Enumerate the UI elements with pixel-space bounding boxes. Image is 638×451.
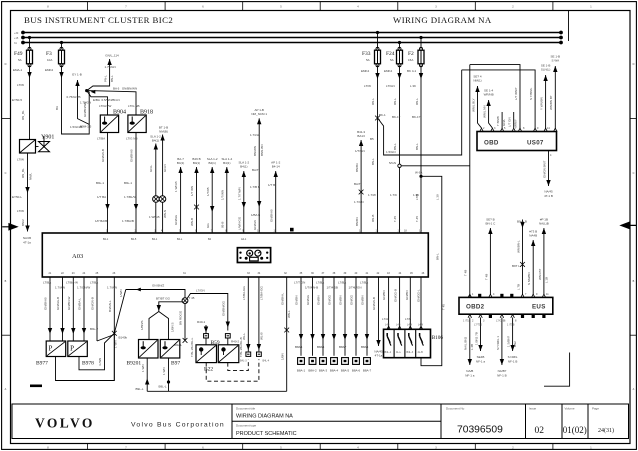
svg-text:L7/BA: L7/BA — [360, 281, 368, 285]
svg-text:Y901: Y901 — [41, 135, 54, 141]
svg-text:B4(1): B4(1) — [193, 161, 200, 165]
svg-text:4T-1a: 4T-1a — [375, 354, 383, 358]
wire OBD pin3 net arrow — [483, 89, 494, 129]
svg-text:T BN/B: T BN/B — [496, 116, 500, 126]
connector block B59 b — [211, 334, 231, 346]
svg-text:1.7/GN/W: 1.7/GN/W — [77, 286, 90, 290]
wire up arrow into OBD2 pin4 — [484, 218, 496, 296]
svg-text:1 /T5B: 1 /T5B — [507, 324, 515, 327]
svg-text:L7/BA: L7/BA — [316, 281, 324, 285]
svg-text:1 WN-B: 1 WN-B — [149, 215, 160, 219]
svg-text:1.5/GN: 1.5/GN — [386, 150, 396, 154]
svg-text:5/GN: 5/GN — [389, 161, 396, 165]
svg-text:1/T4L/GN: 1/T4L/GN — [349, 286, 362, 290]
svg-text:LT/BA: LT/BA — [43, 281, 51, 285]
wire A03 pin34 to block — [257, 277, 264, 351]
wire into sender box b — [228, 338, 240, 345]
svg-text:B8A-5: B8A-5 — [341, 369, 350, 373]
switch contacts inside B106 — [385, 324, 424, 354]
svg-text:GN/BN-W: GN/BN-W — [67, 297, 71, 311]
svg-text:1/T/WN-B: 1/T/WN-B — [305, 286, 318, 290]
splice circle junction — [182, 296, 195, 304]
wire A03 pin22 to B977 — [55, 277, 65, 341]
svg-text:GN/BN: GN/BN — [382, 290, 386, 300]
svg-text:4L-B: 4L-B — [418, 351, 424, 354]
wire F24 to A03 — [384, 65, 402, 233]
svg-text:EY 1-B: EY 1-B — [72, 73, 81, 77]
svg-text:1/T/GN: 1/T/GN — [355, 149, 365, 153]
temp sender B9201 — [127, 340, 159, 367]
off-page arrow SE B left — [67, 73, 82, 100]
sender ground return wire from A03 pin32 — [280, 277, 291, 391]
svg-text:B9L-1: B9L-1 — [96, 181, 104, 185]
svg-text:LT/GN: LT/GN — [386, 84, 395, 88]
svg-text:L7/BA: L7/BA — [338, 281, 346, 285]
svg-text:D: D — [633, 63, 635, 66]
svg-text:GN BN/Z: GN BN/Z — [152, 284, 164, 288]
svg-text:BK 4-1: BK 4-1 — [407, 69, 417, 73]
svg-text:B2-5: B2-5 — [131, 238, 137, 241]
wire OBD pin7 stub — [508, 112, 518, 128]
svg-text:WL-B: WL-B — [259, 333, 263, 341]
svg-text:1 WN: 1 WN — [141, 365, 145, 373]
svg-text:BNN-BN: BNN-BN — [260, 144, 264, 156]
return wire labels — [98, 358, 102, 366]
frame zone ticks left and right — [2, 118, 637, 335]
connector block B59 a — [204, 334, 209, 338]
svg-text:01(02): 01(02) — [563, 425, 587, 435]
svg-text:BK-1?: BK-1? — [412, 115, 421, 119]
svg-text:SE4B: SE4B — [477, 355, 485, 359]
svg-text:NA/45: NA/45 — [23, 236, 32, 240]
fuse F2 — [408, 36, 424, 67]
svg-text:1.7/WN: 1.7/WN — [107, 286, 117, 290]
wire OBD pin5 stub — [496, 112, 506, 128]
svg-text:B4L-1: B4L-1 — [385, 351, 392, 354]
wire up arrow into OBD2 pin11 — [538, 218, 549, 296]
svg-text:1 /T5A: 1 /T5A — [463, 320, 471, 323]
diagnostic connector OBD2 EUS — [459, 297, 553, 314]
svg-text:GN-N: GN-N — [163, 164, 167, 172]
title block table — [12, 404, 629, 439]
svg-text:GN/BN-L: GN/BN-L — [280, 293, 284, 306]
svg-text:BA/T: BA/T — [354, 182, 361, 186]
frame zone ticks bottom — [88, 444, 553, 450]
svg-text:BN-L: BN-L — [415, 143, 419, 150]
svg-text:NF-1 B: NF-1 B — [497, 374, 507, 378]
svg-text:WIRING DIAGRAM NA: WIRING DIAGRAM NA — [236, 414, 293, 420]
svg-text:LT/B: LT/B — [415, 194, 419, 200]
svg-text:S NM/L: S NM/L — [508, 355, 518, 359]
svg-text:Document No: Document No — [446, 407, 465, 411]
svg-text:EMA-1: EMA-1 — [13, 68, 23, 72]
svg-text:BN-L: BN-L — [110, 75, 114, 82]
wire A03 pin21 to B977 — [43, 277, 52, 341]
svg-text:GN/BN: GN/BN — [405, 290, 409, 300]
svg-text:4 /WN: 4 /WN — [98, 358, 102, 366]
svg-text:GN/GG: GN/GG — [350, 294, 354, 305]
svg-text:BK-1: BK-1 — [379, 113, 386, 117]
svg-text:1/WN: 1/WN — [119, 290, 123, 298]
svg-text:B8A-6: B8A-6 — [352, 369, 361, 373]
svg-text:BN2: BN2 — [513, 341, 517, 347]
svg-text:WN/BN-L: WN/BN-L — [516, 240, 520, 253]
svg-text:BA13: BA13 — [357, 134, 365, 138]
svg-text:B4/GN-L: B4/GN-L — [108, 300, 112, 312]
svg-text:B977: B977 — [36, 361, 48, 367]
rail wire F24 splice to OBD2 — [389, 161, 470, 200]
svg-text:T.BL.WL/WL-L: T.BL.WL/WL-L — [190, 337, 194, 357]
svg-text:T 4B: T 4B — [464, 270, 468, 276]
rail wire F33 splice to OBD pin8 — [378, 70, 462, 155]
svg-text:LT/BA-W: LT/BA-W — [66, 281, 78, 285]
wire B904 to A03 pin — [95, 133, 110, 233]
svg-text:B9M-1.5: B9M-1.5 — [80, 125, 92, 129]
svg-text:NM/L: NM/L — [29, 173, 33, 180]
sensor B904 — [100, 110, 126, 133]
svg-text:NA/B?: NA/B? — [498, 369, 507, 373]
wire A03 to B106 pin3 — [405, 277, 411, 329]
svg-text:Page: Page — [592, 407, 599, 411]
svg-text:1/T B: 1/T B — [268, 183, 275, 187]
svg-text:GN/GG-B: GN/GG-B — [394, 289, 398, 302]
svg-text:RN_BL: RN_BL — [21, 110, 25, 120]
svg-text:WN-B: WN-B — [190, 218, 194, 226]
svg-text:WN/L NN: WN/L NN — [483, 105, 487, 118]
svg-text:B9L-1: B9L-1 — [124, 181, 132, 185]
svg-text:1/BN S: 1/BN S — [171, 322, 175, 332]
ground wire OBD2 pin3 — [474, 318, 485, 364]
sensor B918 — [128, 110, 153, 133]
svg-text:BA/T: BA/T — [252, 168, 259, 172]
route wire OBD pin9 over and down — [462, 70, 535, 130]
svg-text:GN/GG: GN/GG — [328, 294, 332, 305]
svg-text:L/T GN: L/T GN — [508, 117, 512, 127]
svg-text:L 7B: L 7B — [516, 284, 520, 290]
svg-text:B4(1): B4(1) — [209, 161, 216, 165]
svg-text:NA4B: NA4B — [529, 234, 537, 238]
svg-text:GN/BA-L: GN/BA-L — [78, 298, 82, 310]
dashed link sensor a — [206, 359, 259, 381]
svg-text:BA 6 GN/BN/WN: BA 6 GN/BN/WN — [113, 87, 137, 91]
svg-text:1 S/BN?: 1 S/BN? — [507, 335, 511, 347]
svg-text:B4(1): B4(1) — [177, 161, 184, 165]
svg-text:L4W: L4W — [418, 324, 424, 327]
svg-text:GN/GG: GN/GG — [306, 294, 310, 305]
svg-text:L/T WN/T: L/T WN/T — [514, 87, 518, 100]
svg-text:LT/W: LT/W — [364, 84, 371, 88]
svg-text:L7/B: L7/B — [405, 317, 411, 321]
svg-text:GN/GN BN/T: GN/GN BN/T — [542, 160, 546, 178]
twisted pair symbol — [153, 196, 166, 203]
svg-text:BT/BT GG: BT/BT GG — [156, 297, 171, 301]
svg-text:F2: F2 — [408, 51, 414, 57]
svg-text:GN/GN-B: GN/GN-B — [91, 297, 95, 310]
svg-text:1.7/BA/B: 1.7/BA/B — [122, 219, 134, 223]
svg-text:1/T/WN: 1/T/WN — [221, 190, 225, 200]
fuse F49 — [14, 36, 33, 67]
svg-text:1/P BA/B: 1/P BA/B — [95, 219, 107, 223]
svg-text:B4(1): B4(1) — [152, 139, 159, 143]
svg-text:GN/BN-B: GN/BN-B — [44, 297, 48, 310]
frame centering arrow right — [621, 222, 636, 228]
svg-text:A4-1: A4-1 — [241, 238, 247, 241]
switch pack B106 — [384, 329, 444, 357]
svg-text:B4L-3: B4L-3 — [407, 351, 414, 354]
svg-text:PRODUCT SCHEMATIC: PRODUCT SCHEMATIC — [236, 431, 297, 437]
connector block b — [257, 352, 270, 363]
svg-text:Y WN/BN: Y WN/BN — [539, 97, 543, 110]
OBD top pin numbers — [483, 127, 552, 157]
svg-text:WN/BN BT: WN/BN BT — [549, 95, 553, 110]
svg-text:B4L-4: B4L-4 — [263, 360, 270, 363]
pressure sender B977 — [36, 341, 66, 367]
svg-text:1.7/W: 1.7/W — [368, 193, 376, 197]
svg-text:OBD: OBD — [484, 140, 499, 147]
svg-text:WL-L: WL-L — [242, 333, 246, 340]
svg-text:WN-L: WN-L — [287, 310, 291, 318]
svg-text:15A: 15A — [408, 58, 413, 62]
svg-text:GN/GN-B: GN/GN-B — [372, 297, 376, 310]
svg-text:T-45: T-45 — [393, 216, 397, 222]
svg-text:B8A-2: B8A-2 — [308, 369, 317, 373]
ground wire OBD2 pin6 — [496, 318, 507, 378]
wire B977 return — [56, 333, 115, 380]
svg-text:B4-14: B4-14 — [272, 165, 280, 169]
lamp output wires with terminals — [294, 277, 371, 373]
wire A03 pin25 stub — [90, 277, 114, 341]
svg-text:RN-L: RN-L — [371, 98, 375, 105]
svg-text:B9L-2: B9L-2 — [90, 327, 98, 331]
svg-text:LT/W: LT/W — [17, 209, 24, 213]
svg-text:Volume: Volume — [565, 407, 575, 411]
svg-text:L 4B: L 4B — [470, 344, 474, 350]
svg-text:B8A-7: B8A-7 — [363, 369, 372, 373]
power bus 31 — [14, 41, 563, 45]
svg-text:WN/L BLY: WN/L BLY — [471, 98, 475, 112]
svg-text:P: P — [70, 345, 74, 353]
svg-text:E/BA 0.5/WN/BN-N: E/BA 0.5/WN/BN-N — [93, 98, 120, 102]
fuse F3 — [46, 41, 65, 67]
frame zone ticks top — [88, 2, 553, 11]
svg-text:GN-L: GN-L — [149, 165, 153, 172]
off-page arrow SE B — [104, 54, 120, 83]
A03 top pin labels row — [103, 238, 247, 241]
svg-text:B140b: B140b — [119, 336, 128, 340]
svg-text:S NM/BN: S NM/BN — [527, 272, 531, 285]
svg-text:SLN(L): SLN(L) — [541, 68, 551, 72]
svg-text:Volvo Bus Corporation: Volvo Bus Corporation — [131, 422, 225, 429]
svg-text:NM(1): NM(1) — [473, 79, 481, 83]
svg-text:WN4 BT: WN4 BT — [538, 268, 542, 280]
A03 top pin numbers — [106, 229, 422, 232]
svg-text:GN/BN/WN: GN/BN/WN — [83, 102, 87, 117]
temp sender B97 — [160, 340, 180, 367]
svg-text:Issue: Issue — [529, 407, 537, 411]
wire junction to temp senders — [140, 297, 182, 340]
OBD2 pin number specks — [472, 293, 549, 323]
wire A03 pin33 to block — [242, 277, 251, 351]
wire B918 to A03 pin — [122, 133, 138, 233]
svg-text:B4(1): B4(1) — [240, 165, 247, 169]
frame centering arrow left — [2, 224, 17, 230]
svg-text:L 39: L 39 — [410, 84, 416, 88]
corner route wire bottom right — [544, 353, 570, 387]
fluid sensor B22 b — [204, 337, 243, 372]
svg-text:B4-1: B4-1 — [152, 238, 158, 241]
ground wire from US07 — [542, 151, 553, 199]
svg-text:A03: A03 — [72, 253, 83, 260]
wire A03 to B106 pin2 — [394, 277, 400, 329]
svg-text:WR/NB: WR/NB — [484, 93, 494, 97]
svg-text:W 6A: W 6A — [415, 171, 422, 175]
potentiometer rail wire — [119, 284, 185, 298]
svg-text:+30: +30 — [14, 32, 19, 35]
left margin mark — [30, 384, 42, 387]
svg-text:US07: US07 — [527, 140, 544, 147]
svg-text:LT/GN/W: LT/GN/W — [99, 104, 111, 108]
svg-text:L4B: L4B — [396, 324, 401, 327]
svg-text:1.7/T/WN: 1.7/T/WN — [238, 187, 242, 200]
svg-text:4L-L: 4L-L — [396, 351, 402, 354]
svg-text:NM_NCM 1: NM_NCM 1 — [251, 112, 267, 116]
svg-text:D: D — [5, 63, 7, 66]
twisted pair wire a — [149, 135, 161, 234]
svg-text:R40-1: R40-1 — [197, 320, 206, 324]
svg-text:95-B: 95-B — [221, 222, 225, 228]
svg-text:GN/BN/GG: GN/BN/GG — [222, 300, 226, 316]
pressure sender B978 — [68, 341, 94, 367]
svg-text:T 45: T 45 — [189, 296, 195, 300]
diagnostic connector OBD US07 — [477, 132, 557, 151]
svg-text:GN/BN: GN/BN — [295, 295, 299, 305]
wire up arrow into OBD2 pin9 — [527, 230, 537, 296]
svg-text:NF-1 a: NF-1 a — [476, 360, 486, 364]
svg-text:+15: +15 — [14, 37, 19, 40]
svg-text:VOLVO: VOLVO — [35, 416, 95, 431]
svg-text:B4-L: B4-L — [177, 238, 183, 241]
svg-text:4T-1a: 4T-1a — [23, 241, 31, 245]
svg-text:L4B: L4B — [385, 324, 390, 327]
svg-text:LT/G NB: LT/G NB — [128, 104, 139, 108]
svg-text:B9201: B9201 — [127, 361, 142, 367]
wire F49 to Y901 — [12, 65, 32, 139]
svg-text:L7/G4B: L7/G4B — [496, 320, 505, 323]
svg-text:L/WN-GG: L/WN-GG — [238, 216, 242, 230]
svg-text:B8A-3: B8A-3 — [319, 369, 328, 373]
svg-text:1 WN-B: 1 WN-B — [174, 182, 178, 193]
svg-text:L 1B: L 1B — [545, 277, 549, 283]
svg-text:Document title: Document title — [236, 407, 256, 411]
svg-text:P: P — [49, 345, 53, 353]
svg-text:BUS INSTRUMENT CLUSTER BIC2: BUS INSTRUMENT CLUSTER BIC2 — [24, 15, 173, 25]
wire F3 down and over to junction — [45, 65, 89, 134]
wire B9201 bottom to rail — [136, 358, 150, 391]
svg-text:02: 02 — [535, 426, 545, 436]
svg-text:F3: F3 — [46, 51, 52, 57]
svg-text:S Y/BN/L: S Y/BN/L — [529, 87, 533, 100]
svg-text:70396509: 70396509 — [457, 425, 503, 436]
svg-text:L7/BA-GG: L7/BA-GG — [242, 285, 246, 300]
splice junction B140 — [112, 331, 128, 340]
svg-text:B9L-L: B9L-L — [136, 387, 144, 391]
svg-text:B5: B5 — [370, 137, 374, 141]
svg-text:1/T/95: 1/T/95 — [206, 187, 210, 196]
svg-text:1.7/LW: 1.7/LW — [250, 133, 259, 137]
svg-text:1.7/GN: 1.7/GN — [354, 200, 364, 204]
svg-text:NA/45: NA/45 — [544, 190, 553, 194]
svg-text:1 WN: 1 WN — [162, 368, 166, 376]
route wire OBD pin8 over to OBD2 — [470, 65, 520, 130]
svg-text:PN-L: PN-L — [104, 75, 108, 82]
svg-text:RN-L: RN-L — [415, 98, 419, 105]
svg-text:BN/B4: BN/B4 — [355, 217, 359, 226]
svg-text:5A: 5A — [390, 58, 394, 62]
svg-text:GN/BN-B: GN/BN-B — [270, 209, 274, 222]
fluid sensor B22 a — [190, 337, 217, 362]
svg-text:LT/BA: LT/BA — [97, 137, 105, 141]
svg-text:EY50-5: EY50-5 — [12, 98, 22, 102]
wire junction to B59 branch — [187, 289, 230, 331]
svg-text:GN/GG-B: GN/GG-B — [56, 297, 60, 310]
cluster gauge icon — [237, 248, 270, 263]
svg-text:GN/GG: GN/GG — [174, 214, 178, 225]
long feed wire down to OBD2 pin1 — [464, 65, 470, 298]
dashed link sensor b — [228, 359, 249, 370]
valve Y901 — [20, 135, 55, 154]
svg-text:B8A7: B8A7 — [339, 345, 347, 349]
wire Y901 to ground arrow — [12, 153, 33, 244]
connector block a — [240, 352, 251, 363]
svg-text:BK-1?: BK-1? — [392, 115, 401, 119]
feed wire from F2 junction to B106 — [415, 171, 446, 366]
svg-text:EY50-L: EY50-L — [12, 195, 22, 199]
wire A03 pin24 to B978 — [77, 277, 90, 341]
svg-text:GN/GN-B: GN/GN-B — [101, 149, 105, 162]
svg-text:S WA: S WA — [552, 59, 560, 63]
svg-text:BN-L: BN-L — [436, 253, 440, 260]
svg-text:1.75/GN: 1.75/GN — [105, 65, 116, 69]
svg-text:L7/BA-GG: L7/BA-GG — [259, 285, 263, 300]
svg-text:EUS: EUS — [532, 304, 546, 311]
ground wire from A03 pin42 — [372, 277, 383, 358]
svg-text:L7/A: L7/A — [382, 317, 388, 321]
svg-text:C: C — [633, 172, 635, 175]
svg-text:B97: B97 — [171, 361, 180, 367]
ground return rail — [147, 390, 287, 392]
signal wire into A03 pin 10 — [221, 157, 233, 233]
svg-text:B8A-1: B8A-1 — [297, 369, 306, 373]
svg-text:B8A4: B8A4 — [317, 345, 325, 349]
wire junction down to splice — [174, 304, 187, 348]
svg-text:1.7/WN: 1.7/WN — [55, 286, 65, 290]
svg-text:EMK4: EMK4 — [384, 69, 393, 73]
svg-text:RN-B: RN-B — [371, 215, 375, 222]
svg-text:BN ROGG: BN ROGG — [179, 310, 183, 325]
signal wire into A03 pin 13 — [268, 161, 281, 234]
svg-text:B4L-3: B4L-3 — [240, 360, 247, 363]
svg-text:1/T WN: 1/T WN — [190, 186, 194, 196]
svg-text:B9T L: B9T L — [512, 264, 520, 268]
wire OBD pin16 tall net arrow — [549, 55, 560, 130]
svg-text:1.7/B B: 1.7/B B — [250, 185, 260, 189]
svg-text:NF-1 B: NF-1 B — [508, 360, 518, 364]
OBD top pin carets — [480, 128, 557, 131]
svg-text:C: C — [5, 172, 7, 175]
svg-text:B22: B22 — [204, 367, 213, 373]
twisted pair wire b — [159, 126, 168, 234]
svg-text:NF-1 a: NF-1 a — [465, 374, 475, 378]
